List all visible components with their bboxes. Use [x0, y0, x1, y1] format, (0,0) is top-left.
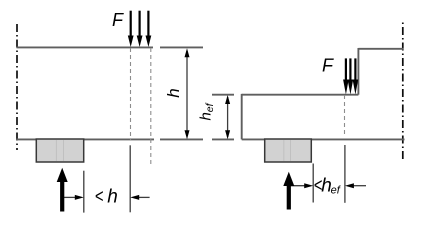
svg-text:h: h	[107, 187, 118, 208]
svg-text:F: F	[112, 10, 124, 30]
svg-text:<: <	[95, 186, 104, 207]
svg-text:h: h	[164, 88, 183, 97]
svg-text:F: F	[322, 56, 334, 76]
